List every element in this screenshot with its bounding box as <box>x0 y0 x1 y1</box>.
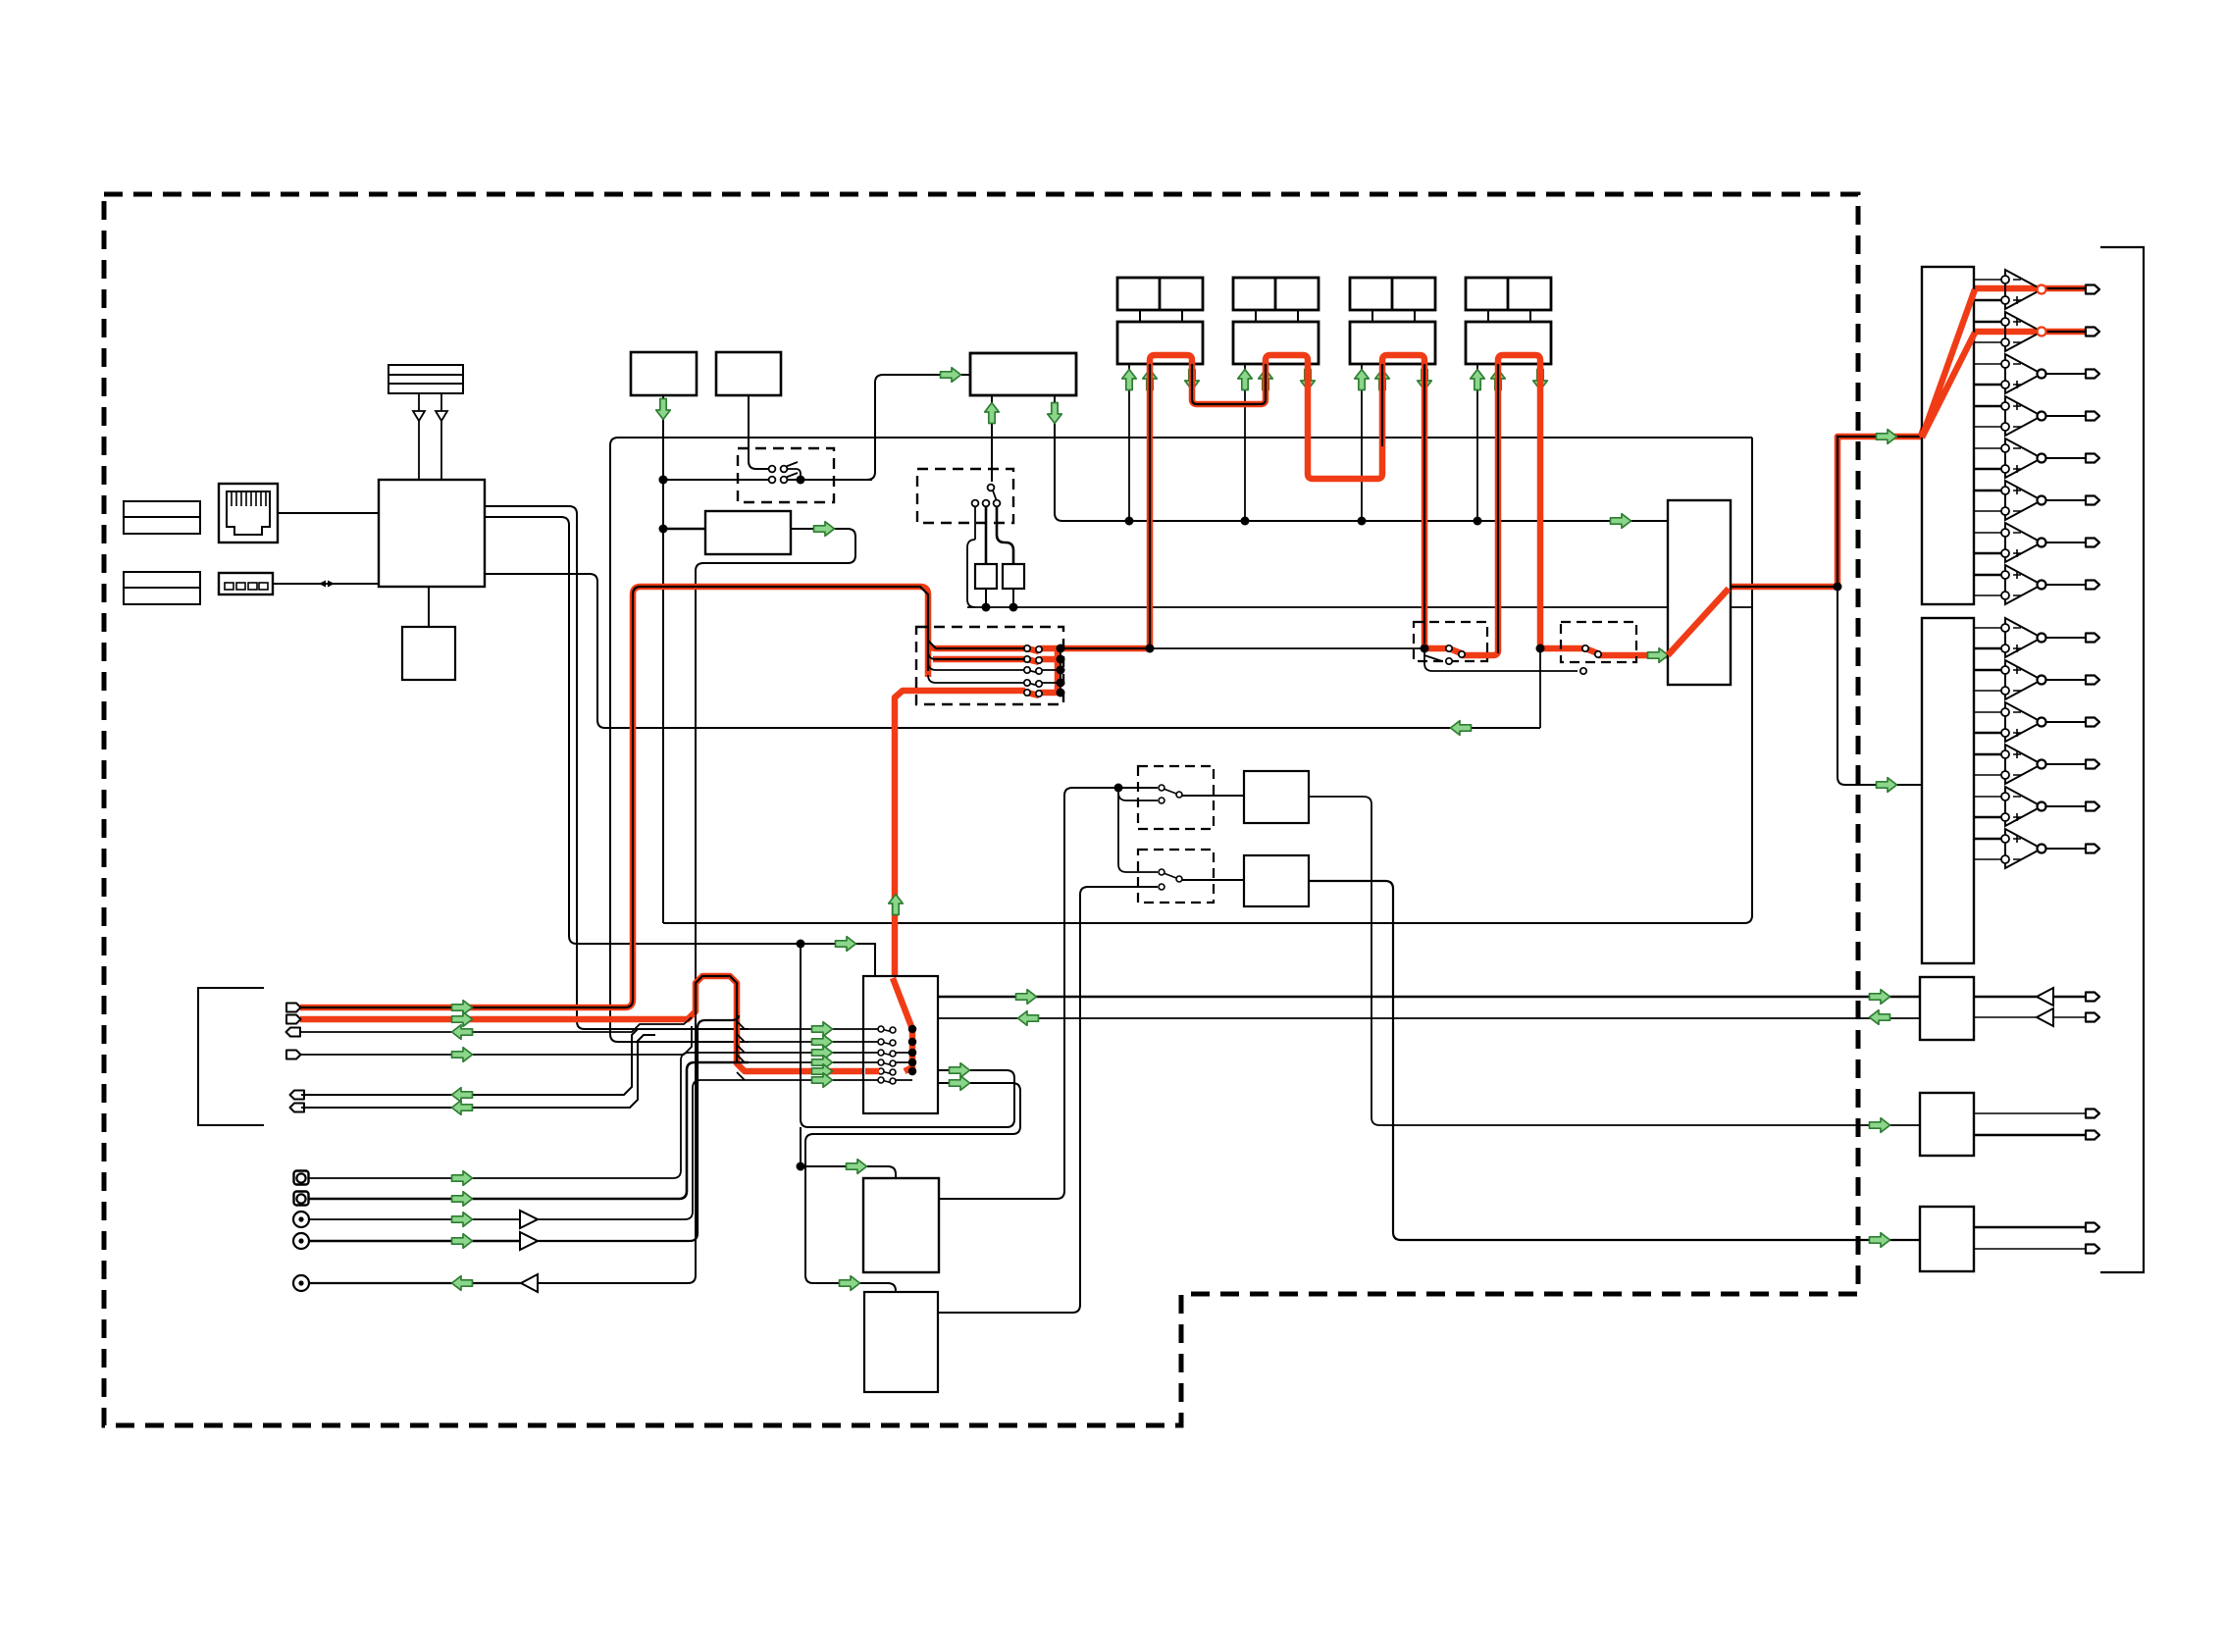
red: HDMI tx1 internal and out <box>1150 355 1192 648</box>
MCU wire w3 to HDMI ctrl line <box>485 574 1540 728</box>
zone select verticals <box>1118 788 1158 872</box>
dac feed line <box>801 1127 896 1178</box>
amp channel y693 <box>1974 669 2001 672</box>
flash block below MCU <box>428 587 430 627</box>
block D output loop to AV monitor out <box>538 529 855 1283</box>
junction dot hdmi out <box>1834 583 1842 592</box>
wire to power amp B <box>1837 587 1922 785</box>
digital out connector <box>293 1275 309 1291</box>
antenna plate <box>388 365 463 393</box>
HDMI input 3 connector <box>1350 278 1435 310</box>
trunk fan stubs <box>737 1021 745 1080</box>
red: source switch levers and column <box>1027 648 1058 696</box>
label plate 2 <box>124 572 200 604</box>
main bus y446 <box>610 438 1752 445</box>
wire from block A down <box>662 395 664 923</box>
ctrl line below switch B <box>1539 648 1541 728</box>
selector switch contacts <box>878 1026 912 1084</box>
red: AV1 video in to source switch row1 <box>300 587 1025 1007</box>
source switch contacts <box>1024 645 1061 697</box>
ADC block <box>864 1292 938 1392</box>
amp channel y822 <box>1974 796 2001 798</box>
red overlay: hdmi out driver diagonal <box>1668 589 1729 655</box>
zone line out block Z1 <box>1920 977 1974 1040</box>
wire coax2 buffer to source switch row4 <box>309 1240 519 1243</box>
bus446 left drop <box>610 445 749 1042</box>
MCU block <box>379 480 485 587</box>
red: link tx1 to tx2 <box>1192 355 1308 474</box>
amp channel y865 <box>1974 838 2001 841</box>
dashed chassis border <box>104 194 1858 1425</box>
amp channel y736 <box>1974 711 2001 713</box>
power amp block A <box>1922 267 1974 604</box>
right output bracket <box>2100 247 2144 1272</box>
black over red path (dark segments) <box>300 288 2086 1061</box>
amp channel y650 <box>1974 627 2001 629</box>
HDMI receiver 4 <box>1488 310 1530 322</box>
red: source switch out to HDMI tx1 <box>1061 645 1150 652</box>
dashed box hdmi out switch B <box>1561 622 1636 662</box>
red overlay: amp A diagonals <box>1922 289 1975 438</box>
DAC block <box>863 1178 939 1272</box>
block C left pin down to tuner switch <box>991 395 993 482</box>
HDMI receiver 2 <box>1256 310 1298 322</box>
selector loop out lower to adc <box>805 1083 1020 1292</box>
amp channel y295 <box>1974 279 2001 281</box>
power amp block B <box>1922 618 1974 963</box>
block B (keys) <box>716 352 781 395</box>
hotplug pin 3 <box>1361 364 1363 521</box>
AV aux in connector <box>286 1051 301 1059</box>
AV group bracket <box>198 988 264 1125</box>
dsp ctrl dots <box>797 940 805 949</box>
dashed box hdmi repeater switch A <box>1414 622 1487 661</box>
selector loop out upper <box>801 944 1014 1127</box>
wire USB to MCU with bidir mark <box>273 583 379 585</box>
red: selector riser up to source switch row5 <box>895 691 1025 976</box>
HDMI receiver 1 <box>1140 310 1182 322</box>
coax in 2 connector <box>293 1233 309 1249</box>
wire source-out to hdmi switch A alt contact <box>1150 648 1578 671</box>
red: tx4 out via switch B to HDMI out driver <box>1540 644 1672 655</box>
optical in 1 connector <box>294 1171 309 1185</box>
antenna symbols <box>413 393 447 480</box>
AV video in connector <box>286 1004 301 1012</box>
hotplug pin 2 <box>1244 364 1246 521</box>
riser to OSD block <box>867 375 970 480</box>
red: AV1 audio in riser to record trunk <box>300 976 879 1071</box>
main mix out lines <box>938 996 1920 999</box>
dac out riser <box>939 788 1158 1199</box>
amp channel y338 <box>1974 321 2001 324</box>
selector input rows <box>749 1029 879 1080</box>
switch S2 row <box>663 473 872 483</box>
arrow ctrl left <box>1451 721 1472 736</box>
red overlay: selector diagonal and column <box>865 978 912 1071</box>
wire optical2 to selector row4 <box>309 1062 749 1199</box>
block D (video dac) <box>705 511 791 554</box>
zone2 dac out <box>1309 797 1920 1125</box>
HDMI input 1 connector <box>1117 278 1203 310</box>
amp channel y596 <box>1974 574 2001 577</box>
green arrows on left connector rows <box>452 1001 473 1015</box>
hotplug pin 4 <box>1476 364 1478 521</box>
tuner switch <box>972 485 1001 507</box>
wire AV aux row4 to source switch row3 <box>301 1026 692 1055</box>
tuner ground line <box>967 606 1752 608</box>
label plate 1 <box>124 501 200 534</box>
block A (display) <box>631 352 697 395</box>
HDMI out driver block <box>1668 500 1731 685</box>
source select dashed box <box>916 627 1063 704</box>
OSD/video block C <box>970 353 1076 395</box>
dashed box zone switch D <box>1138 850 1214 903</box>
amp channel y381 <box>1974 363 2001 365</box>
amp channel y553 <box>1974 532 2001 534</box>
amp channel y424 <box>1974 405 2001 408</box>
riser arrow <box>889 895 904 915</box>
switch S1 <box>769 462 801 480</box>
red: source switch row2 red feed <box>933 656 1025 663</box>
red: HDMI out riser across border to amp <box>1728 289 1975 587</box>
adc out riser <box>938 887 1158 1313</box>
HDMI receiver 3 <box>1372 310 1415 322</box>
zone3 dac block <box>1244 855 1309 906</box>
source switch row stubs <box>928 651 1025 683</box>
AV audio in connector <box>286 1015 301 1024</box>
zone3 line out block Z3 <box>1920 1207 1974 1271</box>
digital out buffer <box>521 1274 538 1292</box>
dashed box zone switch C <box>1138 766 1214 829</box>
green arrows selector rows <box>812 1022 833 1037</box>
zone2 line out block Z2 <box>1920 1093 1974 1156</box>
AV monitor out connectors <box>290 1091 305 1100</box>
red: amp row1 row2 to speaker connectors <box>1974 288 2086 332</box>
HDMI input 2 connector <box>1233 278 1319 310</box>
zone2 dac block <box>1244 771 1309 823</box>
wire AV monitor out rows <box>301 1029 649 1095</box>
amp channel y510 <box>1974 490 2001 492</box>
wire RJ45 to MCU <box>278 512 379 514</box>
ethernet jack RJ45 <box>219 484 278 542</box>
coax in 1 connector <box>293 1212 309 1227</box>
wire optical1 to selector row3 <box>309 1053 749 1178</box>
hotplug pin 1 <box>1128 364 1130 521</box>
red: selector diagonal and column <box>893 978 912 1071</box>
zone3 dac out <box>1309 881 1920 1240</box>
junction at tx1 input <box>1146 645 1155 653</box>
AV out connector <box>286 1028 301 1037</box>
wire coax1 buffer to selector row6 <box>309 1218 519 1220</box>
red: link tx2 to tx3 <box>1308 355 1424 644</box>
DSP selector block <box>863 976 938 1113</box>
amp channel y467 <box>1974 447 2001 449</box>
usb port <box>219 573 273 594</box>
block C right pin to HDMI bus y531 <box>1055 395 1668 521</box>
wire AV out row3 to source switch row2 <box>301 1017 692 1032</box>
wire from block B down to switch S1 <box>749 395 769 469</box>
red: tx3 out via switch A to tx4 <box>1424 355 1540 655</box>
dashed box system switch S1/S2 <box>738 448 834 502</box>
optical in 2 connector <box>294 1192 309 1206</box>
dashed box tuner switch <box>917 469 1013 523</box>
MCU wire w1 to selector row1 <box>485 506 749 1029</box>
MCU wire w2 to DSP top <box>485 517 875 976</box>
wire block A line to bus1786 <box>663 438 1752 923</box>
HDMI input 4 connector <box>1466 278 1551 310</box>
tuner resonators <box>967 507 1024 607</box>
Z1 buffers and connectors <box>1974 996 2037 998</box>
amp channel y779 <box>1974 753 2001 756</box>
